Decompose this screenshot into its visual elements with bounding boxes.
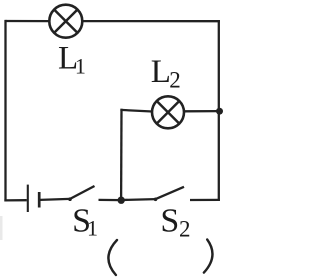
svg-text:L: L: [151, 54, 171, 90]
svg-text:S: S: [160, 202, 179, 239]
svg-text:1: 1: [75, 54, 86, 79]
svg-text:2: 2: [169, 68, 181, 93]
svg-text:2: 2: [179, 216, 191, 241]
svg-text:1: 1: [87, 216, 98, 241]
